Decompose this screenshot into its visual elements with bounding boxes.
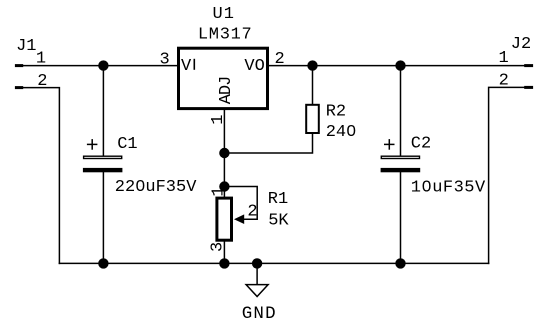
svg-text:LM317: LM317 bbox=[198, 26, 253, 45]
svg-text:R1: R1 bbox=[268, 190, 288, 209]
svg-text:GND: GND bbox=[242, 304, 277, 323]
svg-text:J2: J2 bbox=[511, 35, 531, 54]
svg-text:1: 1 bbox=[499, 49, 509, 68]
svg-text:220uF35V: 220uF35V bbox=[115, 178, 197, 197]
svg-text:5K: 5K bbox=[268, 212, 289, 231]
svg-text:R2: R2 bbox=[326, 102, 346, 121]
svg-text:V: V bbox=[181, 57, 192, 76]
svg-text:ADJ: ADJ bbox=[217, 77, 236, 105]
svg-text:C1: C1 bbox=[117, 135, 137, 154]
svg-text:2: 2 bbox=[275, 50, 285, 69]
svg-text:1: 1 bbox=[210, 186, 229, 196]
svg-text:10uF35V: 10uF35V bbox=[411, 179, 486, 198]
svg-text:2: 2 bbox=[499, 72, 509, 91]
svg-text:C2: C2 bbox=[411, 135, 431, 154]
svg-text:3: 3 bbox=[209, 242, 228, 252]
svg-text:240: 240 bbox=[326, 123, 357, 142]
svg-text:VO: VO bbox=[244, 57, 264, 76]
svg-text:1: 1 bbox=[209, 115, 228, 125]
svg-text:1: 1 bbox=[36, 49, 46, 68]
svg-text:2: 2 bbox=[247, 202, 257, 221]
svg-text:U1: U1 bbox=[213, 5, 235, 24]
svg-text:2: 2 bbox=[37, 72, 47, 91]
svg-text:J1: J1 bbox=[16, 37, 36, 56]
svg-text:3: 3 bbox=[160, 51, 170, 70]
